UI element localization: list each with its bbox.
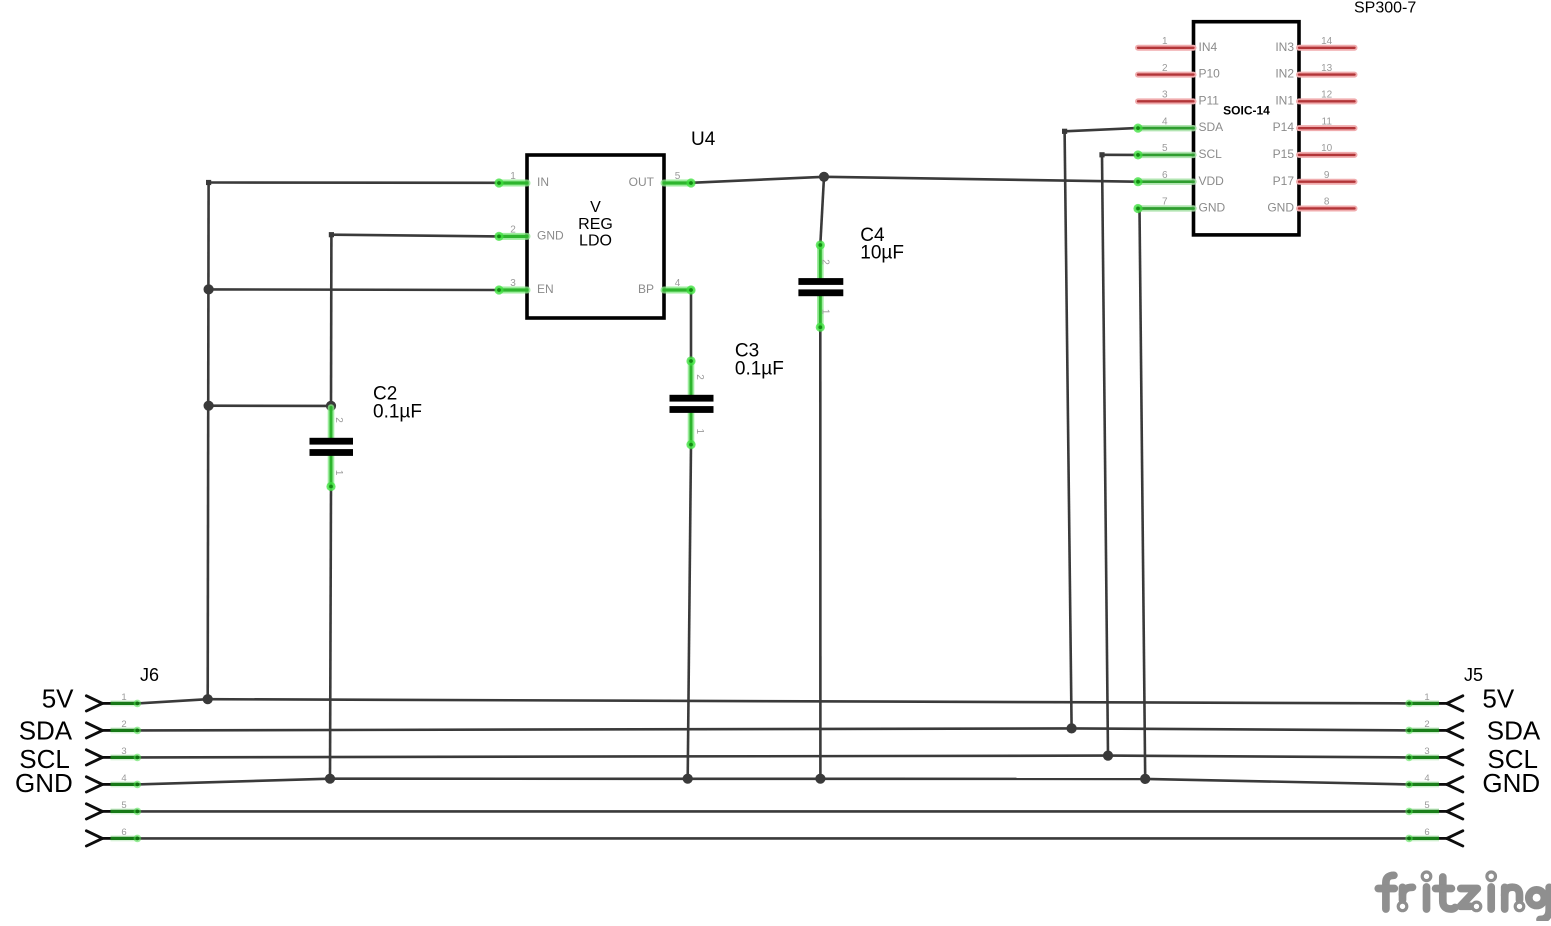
- svg-text:P14: P14: [1273, 120, 1295, 134]
- svg-text:IN2: IN2: [1275, 67, 1294, 81]
- svg-text:9: 9: [1324, 170, 1330, 181]
- svg-text:3: 3: [510, 278, 516, 289]
- svg-text:6: 6: [121, 827, 126, 838]
- svg-text:1: 1: [1424, 692, 1429, 703]
- svg-text:10: 10: [1321, 143, 1333, 154]
- svg-text:1: 1: [820, 309, 831, 315]
- svg-text:14: 14: [1321, 36, 1333, 47]
- svg-text:P17: P17: [1273, 174, 1295, 188]
- svg-text:2: 2: [1424, 719, 1429, 730]
- svg-text:5: 5: [675, 171, 681, 182]
- svg-text:5: 5: [1162, 143, 1168, 154]
- svg-text:J5: J5: [1464, 665, 1483, 685]
- svg-text:2: 2: [333, 417, 344, 423]
- svg-text:J6: J6: [140, 665, 159, 685]
- svg-text:2: 2: [820, 259, 831, 265]
- svg-text:SP300-7: SP300-7: [1354, 0, 1416, 17]
- svg-text:5V: 5V: [42, 684, 74, 714]
- svg-text:4: 4: [1162, 116, 1168, 127]
- svg-text:3: 3: [121, 746, 126, 757]
- svg-text:VDD: VDD: [1199, 174, 1225, 188]
- svg-text:2: 2: [510, 225, 516, 236]
- svg-text:EN: EN: [537, 282, 554, 296]
- svg-text:GND: GND: [1267, 201, 1294, 215]
- svg-text:4: 4: [121, 773, 126, 784]
- svg-text:GND: GND: [537, 229, 564, 243]
- svg-text:REG: REG: [578, 216, 613, 233]
- svg-text:7: 7: [1162, 197, 1168, 208]
- svg-text:0.1µF: 0.1µF: [735, 358, 784, 379]
- svg-text:IN4: IN4: [1199, 40, 1218, 54]
- svg-text:6: 6: [1162, 170, 1168, 181]
- svg-text:5V: 5V: [1482, 684, 1514, 714]
- svg-text:IN: IN: [537, 175, 549, 189]
- svg-text:SDA: SDA: [19, 716, 73, 746]
- svg-text:2: 2: [1162, 63, 1168, 74]
- svg-text:1: 1: [510, 171, 516, 182]
- svg-text:2: 2: [121, 719, 126, 730]
- svg-text:6: 6: [1424, 827, 1429, 838]
- svg-text:LDO: LDO: [579, 233, 612, 250]
- svg-text:12: 12: [1321, 90, 1333, 101]
- svg-text:3: 3: [1424, 746, 1429, 757]
- svg-text:8: 8: [1324, 197, 1330, 208]
- svg-text:BP: BP: [638, 282, 654, 296]
- svg-text:13: 13: [1321, 63, 1333, 74]
- svg-text:4: 4: [1424, 773, 1429, 784]
- svg-text:GND: GND: [1482, 768, 1540, 798]
- svg-text:GND: GND: [1199, 201, 1226, 215]
- svg-text:P10: P10: [1199, 67, 1221, 81]
- svg-text:10µF: 10µF: [860, 242, 904, 263]
- svg-text:1: 1: [333, 470, 344, 476]
- svg-text:GND: GND: [15, 768, 73, 798]
- svg-text:4: 4: [675, 278, 681, 289]
- svg-text:OUT: OUT: [629, 175, 655, 189]
- svg-text:P15: P15: [1273, 147, 1295, 161]
- svg-text:5: 5: [1424, 800, 1429, 811]
- svg-text:11: 11: [1322, 116, 1333, 127]
- svg-text:SDA: SDA: [1487, 716, 1541, 746]
- svg-text:SOIC-14: SOIC-14: [1223, 103, 1270, 117]
- svg-text:2: 2: [694, 374, 705, 380]
- svg-text:1: 1: [1162, 36, 1168, 47]
- svg-text:IN1: IN1: [1275, 93, 1294, 107]
- svg-text:SDA: SDA: [1199, 120, 1224, 134]
- svg-text:5: 5: [121, 800, 126, 811]
- svg-text:V: V: [590, 199, 601, 216]
- svg-text:P11: P11: [1199, 93, 1220, 107]
- svg-text:3: 3: [1162, 90, 1168, 101]
- svg-text:0.1µF: 0.1µF: [373, 402, 422, 423]
- svg-text:1: 1: [121, 692, 126, 703]
- svg-text:SCL: SCL: [1199, 147, 1223, 161]
- svg-text:1: 1: [694, 429, 705, 435]
- svg-text:U4: U4: [691, 129, 716, 150]
- svg-text:IN3: IN3: [1275, 40, 1294, 54]
